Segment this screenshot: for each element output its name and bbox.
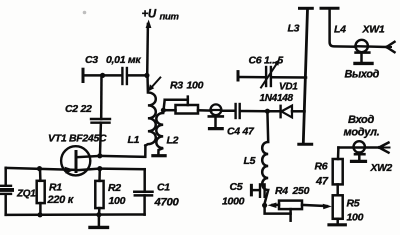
- svg-text:R6: R6: [315, 161, 328, 173]
- svg-text:0,01 мк: 0,01 мк: [106, 54, 141, 66]
- svg-text:C6 1...5: C6 1...5: [249, 55, 284, 67]
- wire drain to L1: [100, 146, 146, 157]
- svg-text:C5: C5: [230, 181, 243, 193]
- junction dot R4/C5/L5: [262, 203, 267, 208]
- crystal ZQ1: [0, 168, 14, 215]
- svg-text:100: 100: [109, 195, 126, 207]
- svg-text:4700: 4700: [154, 197, 180, 209]
- junction dot R1 bottom: [37, 212, 42, 217]
- svg-text:VT1 BF245C: VT1 BF245C: [48, 133, 107, 145]
- inductor L5: [262, 111, 268, 203]
- diode VD1: [267, 106, 304, 118]
- junction dot C3/C2: [100, 73, 105, 78]
- ground R5: [329, 219, 345, 225]
- wire C2 bottom: [99, 123, 102, 155]
- junction dot L2/R3: [161, 108, 166, 113]
- wire bottom rail: [6, 213, 145, 216]
- junction dot VD1/L5: [265, 109, 270, 114]
- label R2 value: [108, 182, 126, 207]
- inductor L2: [156, 110, 163, 154]
- junction dot R1 top: [37, 166, 42, 171]
- svg-text:Выход: Выход: [345, 69, 380, 81]
- svg-text:Вход: Вход: [348, 114, 374, 126]
- svg-text:L2: L2: [167, 135, 179, 147]
- inductor L4: [321, 8, 356, 46]
- junction dot drain node: [97, 153, 102, 158]
- resistor R6: [333, 159, 343, 184]
- tuning arrow L1: [148, 78, 160, 92]
- resistor R2: [95, 169, 103, 215]
- svg-text:+U: +U: [142, 9, 157, 21]
- svg-text:C3: C3: [85, 54, 98, 66]
- resistor R5 potentiometer: [302, 195, 343, 219]
- svg-text:L3: L3: [288, 23, 300, 35]
- trimmer capacitor C6: [238, 59, 306, 87]
- svg-text:L5: L5: [244, 155, 256, 167]
- svg-text:47: 47: [315, 176, 329, 188]
- svg-text:VD1: VD1: [279, 82, 298, 93]
- svg-text:L4: L4: [334, 24, 346, 36]
- label C1 value: [154, 182, 180, 209]
- label R5 value: [347, 198, 364, 224]
- wire R6 to R5: [336, 184, 339, 195]
- label R1 value: [47, 182, 75, 207]
- svg-text:C1: C1: [157, 182, 170, 194]
- junction dot source node: [97, 166, 102, 171]
- ground L2: [153, 154, 165, 157]
- inductor L1: [145, 75, 155, 145]
- svg-text:C4 47: C4 47: [227, 126, 255, 138]
- wire to C4: [221, 109, 235, 112]
- junction dot C3/L1: [144, 73, 149, 78]
- svg-text:C2 22: C2 22: [65, 103, 92, 115]
- capacitor C3: [122, 68, 127, 84]
- label +Upit: [142, 9, 180, 23]
- svg-text:100: 100: [187, 80, 204, 92]
- svg-text:R2: R2: [108, 182, 121, 194]
- capacitor C1: [134, 169, 152, 214]
- wire R3 to feedthrough: [198, 109, 211, 112]
- svg-text:L1: L1: [128, 134, 140, 146]
- ground XW1: [355, 53, 372, 64]
- label R4 value: [275, 185, 310, 197]
- connector XW1: [356, 40, 395, 52]
- transistor VT1: [6, 146, 100, 175]
- capacitor C4: [236, 104, 240, 118]
- svg-text:XW1: XW1: [362, 24, 385, 36]
- resistor R3 trimmer: [163, 97, 198, 114]
- label R3 value: [170, 80, 204, 92]
- svg-text:XW2: XW2: [370, 163, 393, 174]
- svg-text:1000: 1000: [222, 196, 245, 208]
- ground XW2: [352, 153, 366, 162]
- svg-text:R1: R1: [49, 182, 62, 194]
- svg-text:пит: пит: [160, 12, 180, 23]
- label C5 value: [222, 181, 245, 208]
- wire C3 node: [83, 69, 147, 81]
- svg-text:ZQ1: ZQ1: [16, 189, 36, 200]
- resistor R4: [268, 201, 302, 221]
- svg-text:1N4148: 1N4148: [260, 93, 294, 104]
- svg-text:R3: R3: [170, 80, 183, 92]
- feedthrough capacitor: [209, 104, 223, 128]
- svg-text:250: 250: [292, 185, 310, 197]
- svg-text:R4: R4: [275, 185, 288, 197]
- wire R4 wiper loop: [265, 205, 291, 213]
- svg-text:модул.: модул.: [344, 127, 380, 139]
- power +Upit arrow: [146, 20, 152, 76]
- wire C2 top: [100, 75, 103, 119]
- inductor L3 line: [299, 8, 313, 144]
- resistor R1: [37, 169, 45, 215]
- wire source rail: [100, 167, 145, 170]
- svg-text:100: 100: [347, 212, 364, 224]
- junction dot ground node: [96, 212, 101, 217]
- svg-text:R5: R5: [347, 198, 360, 210]
- connector XW2: [338, 141, 390, 159]
- label C3 value: [85, 54, 141, 66]
- svg-text:220 к: 220 к: [47, 194, 75, 206]
- label Vhod modul: [344, 114, 380, 139]
- label R6 value: [315, 161, 329, 188]
- label VD1: [260, 82, 299, 105]
- capacitor C5: [251, 184, 264, 196]
- capacitor C2: [91, 119, 110, 123]
- scan smudge: [83, 11, 87, 15]
- ground main: [90, 215, 108, 228]
- wire C4 to VD1 node: [240, 110, 268, 113]
